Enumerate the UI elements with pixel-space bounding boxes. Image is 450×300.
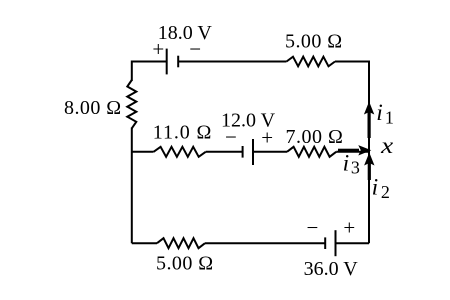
current arrow i2 xyxy=(364,153,374,181)
battery 12.0 V plates xyxy=(242,146,244,158)
svg-text:+: + xyxy=(343,216,355,240)
svg-text:5.00 Ω: 5.00 Ω xyxy=(156,253,214,275)
svg-text:−: − xyxy=(189,37,201,61)
label i3 xyxy=(343,150,360,177)
wire bottom left xyxy=(132,242,157,244)
wire left side lower xyxy=(131,128,133,244)
label i2 xyxy=(372,175,390,202)
svg-text:i: i xyxy=(372,175,379,201)
resistor 7.00 ohm xyxy=(287,147,336,157)
svg-text:5.00 Ω: 5.00 Ω xyxy=(285,31,343,53)
resistor 5.00 ohm bottom xyxy=(157,238,205,248)
svg-text:+: + xyxy=(152,37,164,61)
resistor 11.0 ohm xyxy=(154,147,206,157)
wire middle between battery and R7 xyxy=(253,151,287,153)
svg-text:−: − xyxy=(225,125,237,149)
wire bottom middle xyxy=(205,242,325,244)
resistor 5.00 ohm top xyxy=(287,57,336,67)
svg-text:18.0 V: 18.0 V xyxy=(158,22,213,44)
svg-text:1: 1 xyxy=(385,107,394,127)
svg-text:7.00 Ω: 7.00 Ω xyxy=(286,126,344,148)
wire middle between R11 and battery xyxy=(206,151,243,153)
svg-text:36.0 V: 36.0 V xyxy=(304,258,359,280)
wire middle branch left xyxy=(132,151,154,153)
current arrow i1 xyxy=(364,102,374,139)
resistor 8.00 ohm left xyxy=(127,80,136,128)
wire top-left segment xyxy=(132,62,167,82)
wire top-right segment xyxy=(178,61,286,63)
svg-text:−: − xyxy=(307,215,319,239)
svg-text:8.00 Ω: 8.00 Ω xyxy=(64,97,122,119)
svg-text:i: i xyxy=(343,150,350,176)
svg-text:i: i xyxy=(376,100,383,126)
current arrow i3 xyxy=(338,145,371,155)
battery 36.0 V plates xyxy=(324,237,326,249)
svg-text:+: + xyxy=(261,126,273,150)
label i1 xyxy=(376,100,394,127)
svg-text:x: x xyxy=(380,133,394,159)
svg-text:3: 3 xyxy=(351,158,360,178)
svg-text:11.0 Ω: 11.0 Ω xyxy=(153,121,213,143)
wire top to right corner xyxy=(335,62,369,244)
wire middle branch right to node xyxy=(336,151,369,153)
battery 18.0 V plates xyxy=(166,49,168,75)
wire bottom right xyxy=(336,242,370,244)
svg-text:2: 2 xyxy=(381,182,390,202)
